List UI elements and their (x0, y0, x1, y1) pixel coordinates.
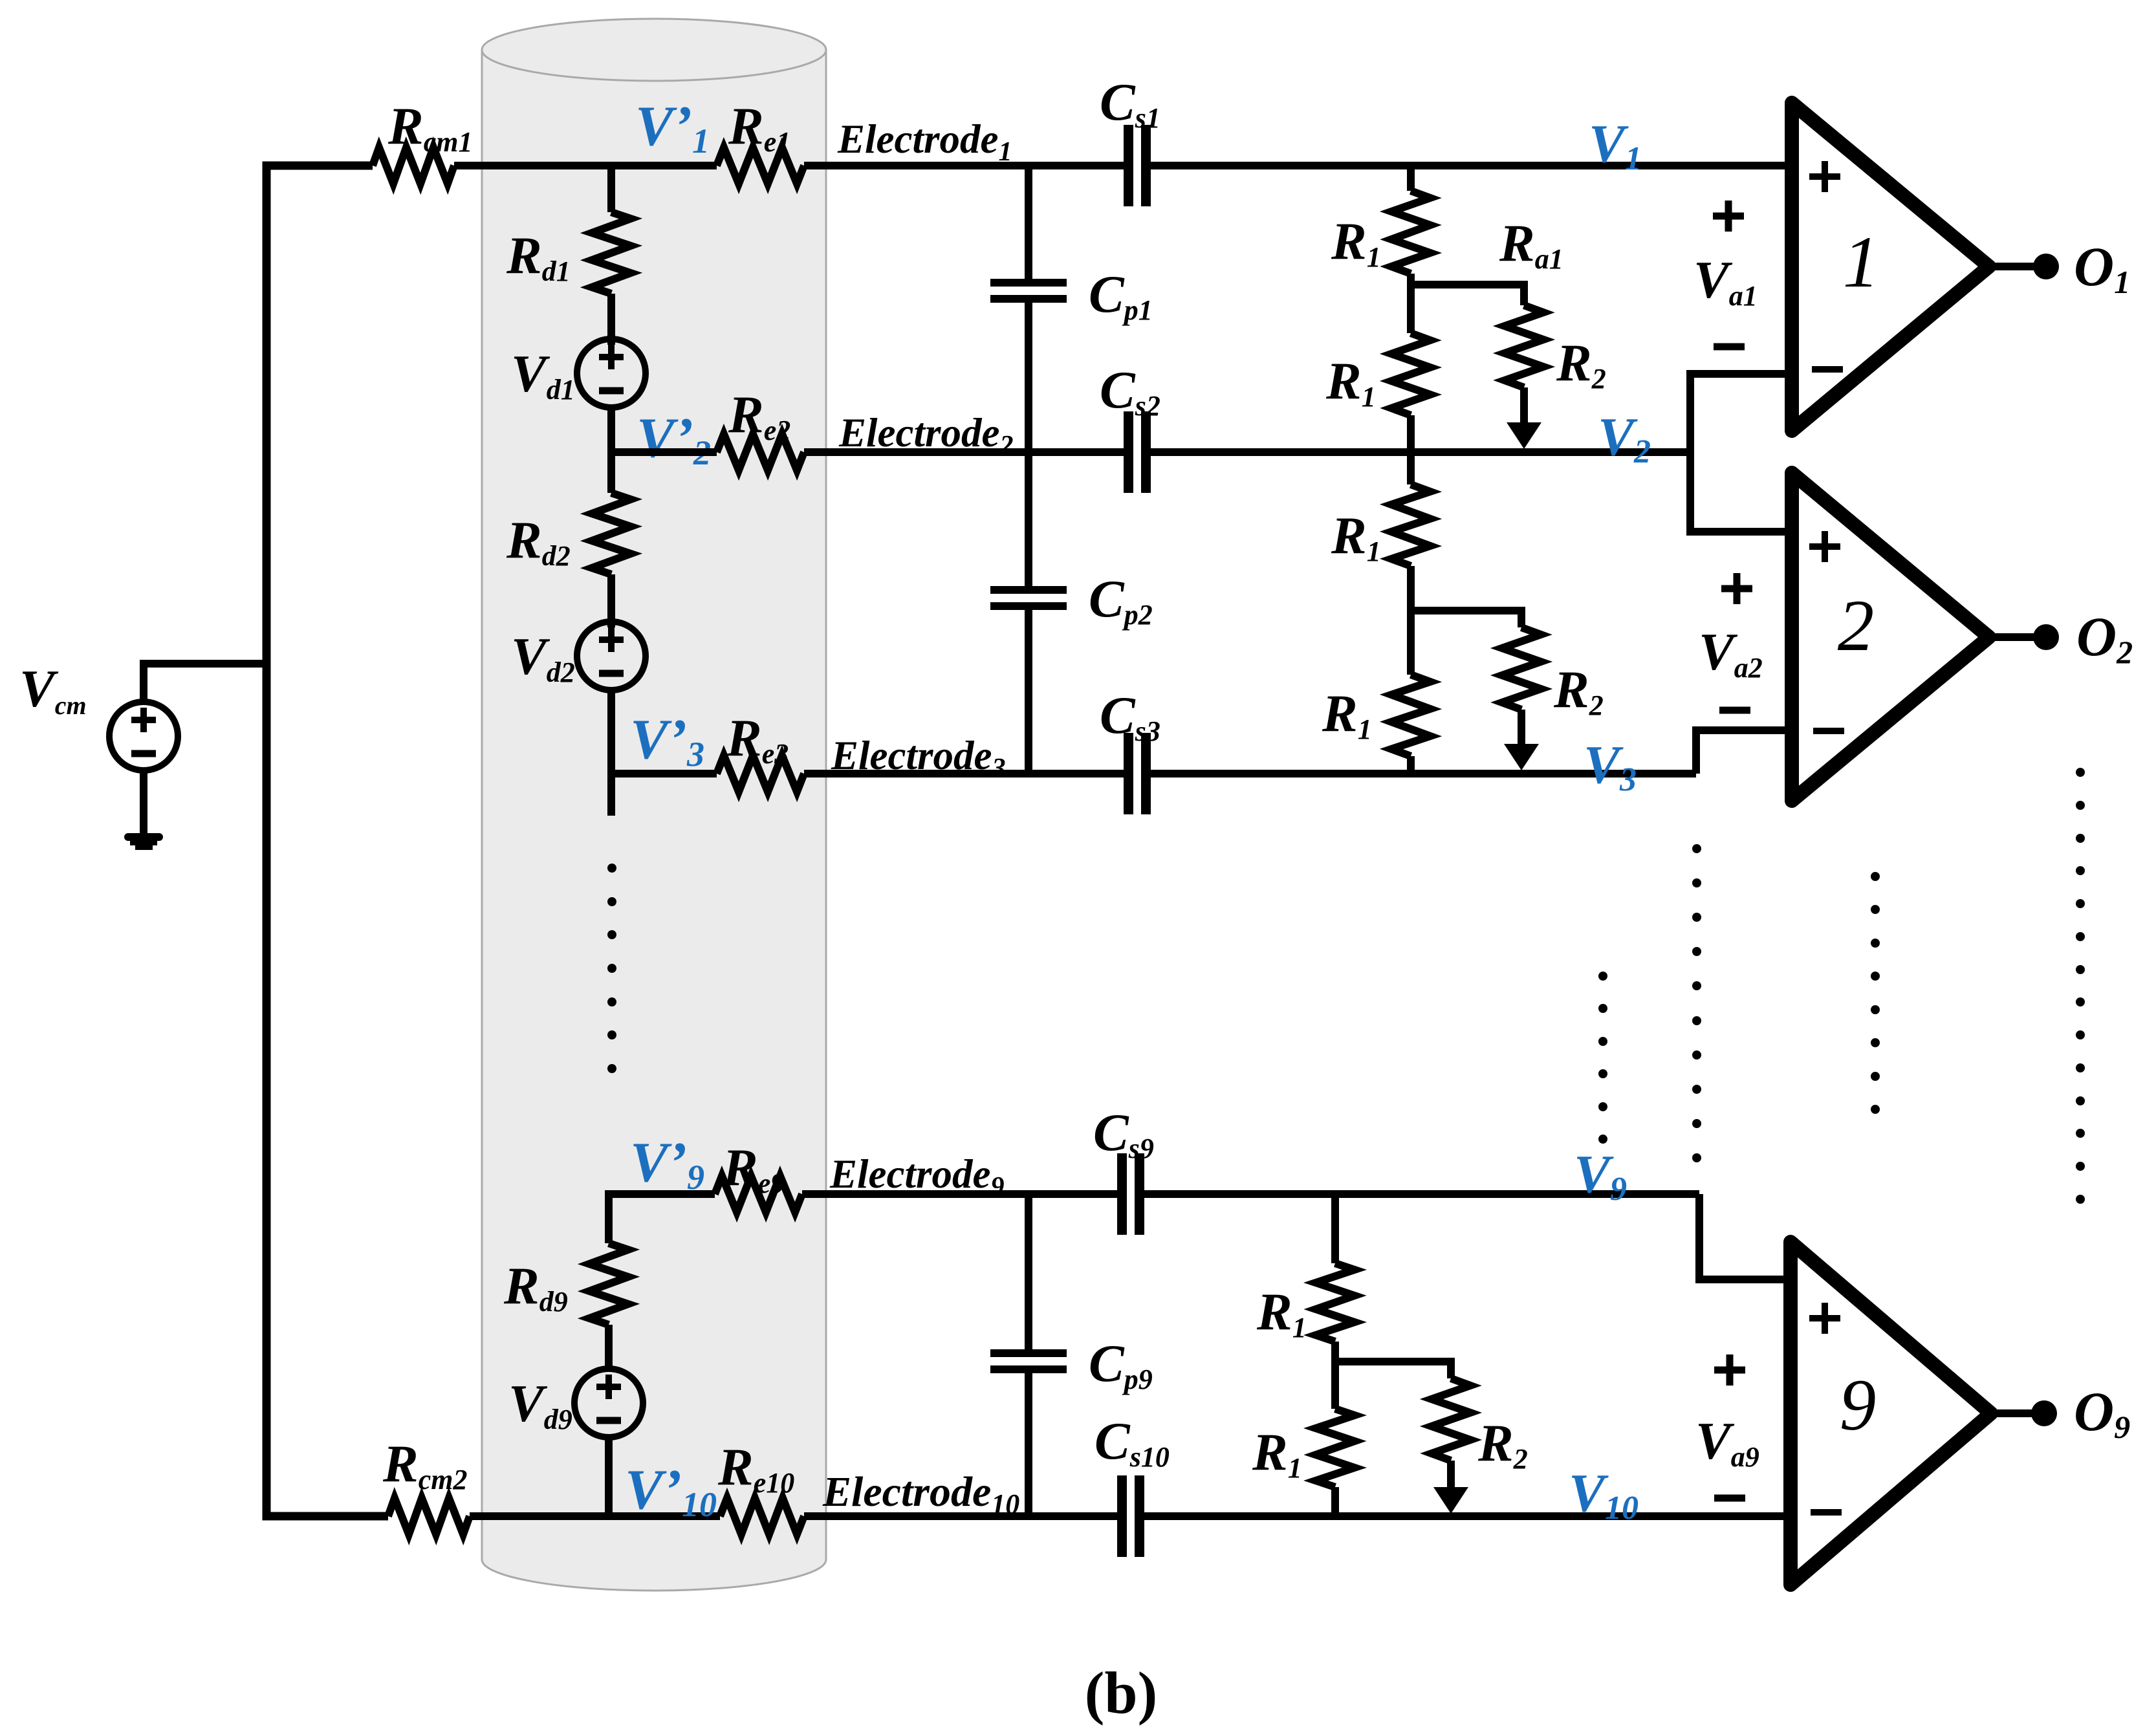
wire row1 to Cs1 (804, 162, 1124, 169)
label plus Va2 (1721, 573, 1752, 604)
wire row9 to Cs9 (802, 1190, 1117, 1198)
resistor Rd2 (592, 493, 631, 574)
svg-text:9: 9 (1840, 1365, 1877, 1446)
wire R1m bottom lead (1407, 756, 1415, 774)
capacitor Cs3 (1124, 733, 1151, 814)
op-amp U2 plus in (1809, 531, 1840, 562)
wire row9 to step (1144, 1190, 1699, 1198)
wire Ra2 jumper (1411, 611, 1521, 627)
wire Vd2 to V'3 (607, 690, 615, 816)
wire V'2 junction down (607, 452, 615, 493)
svg-text:Electrode2: Electrode2 (838, 410, 1013, 461)
wire row10 mid (470, 1512, 720, 1520)
wire R2b lead down (1447, 1461, 1455, 1488)
capacitor Cp9 (990, 1349, 1067, 1373)
resistor Rcm2 (388, 1498, 470, 1534)
resistor Re1 (717, 147, 804, 184)
svg-text:1: 1 (1843, 222, 1880, 303)
wire Rd2 to Vd2 (607, 574, 615, 627)
resistor Re2 (717, 434, 804, 470)
label minus Va2 (1719, 707, 1750, 714)
capacitor Cp2 (990, 586, 1067, 610)
label minus Va9 (1714, 1495, 1745, 1502)
svg-text:Electrode1: Electrode1 (837, 116, 1012, 167)
op-amp U1 minus in (1812, 366, 1843, 373)
resistor Re3 (717, 756, 804, 792)
wire row10 to opamp9 (1144, 1512, 1791, 1520)
wire row2 to Cs2 (804, 448, 1124, 456)
op-amp U1 plus in (1809, 161, 1840, 192)
ground arrow R2 mid (1504, 744, 1539, 770)
voltage source Vd1 (577, 339, 646, 408)
wire row9 left (609, 1194, 715, 1243)
node O2 dot (2033, 624, 2059, 650)
ground arrow R2 bottom (1433, 1487, 1468, 1514)
resistor Rcm1 (373, 147, 454, 184)
resistor R2 mid (1502, 627, 1541, 710)
capacitor Cp1 (990, 279, 1067, 303)
wire fork vertical (1690, 374, 1792, 532)
wire Cp9 upper lead (1025, 1194, 1032, 1349)
wire op1 output (1989, 263, 2034, 270)
label plus Va9 (1714, 1354, 1745, 1386)
ellipsis chain (607, 864, 616, 1073)
wire R1m top lead (1407, 452, 1415, 484)
wire R1 mid (1407, 274, 1415, 333)
wire row2 to fork (1151, 448, 1690, 456)
wire R1 top lead (1407, 166, 1415, 191)
wire row3 to Cs3 (804, 770, 1124, 778)
wire R1b top lead (1331, 1194, 1339, 1263)
body volume cylinder (482, 19, 826, 1591)
wire step op9 plus (1699, 1194, 1791, 1279)
wire R1 bottom lead (1407, 415, 1415, 452)
node O9 dot (2031, 1400, 2057, 1426)
ellipsis col out (2076, 768, 2085, 1204)
wire R1b mid (1331, 1342, 1339, 1409)
resistor R1 upper (1391, 191, 1430, 274)
wire R2 lead down (1520, 387, 1528, 424)
svg-text:Electrode10: Electrode10 (822, 1468, 1019, 1520)
capacitor Cs10 (1117, 1475, 1144, 1557)
op-amp U1 (1792, 103, 1989, 431)
wire row3 to step (1151, 770, 1696, 778)
voltage source Vcm (109, 702, 178, 770)
wire row10 to Cs10 (804, 1512, 1117, 1520)
wire step op2 minus (1696, 730, 1792, 774)
resistor R2 top (1505, 305, 1543, 387)
resistor Rd9 (589, 1243, 628, 1325)
wire Vcm top to bus (144, 664, 267, 702)
resistor R1 bottom-upper (1316, 1263, 1355, 1342)
wire Vd1 to V'2 (607, 408, 615, 452)
label minus Va1 (1714, 343, 1745, 351)
wire Rd1 to Vd1 (607, 294, 615, 345)
capacitor Cs9 (1117, 1153, 1144, 1235)
wire row1 mid (454, 162, 717, 169)
wire R1b bottom lead (1331, 1487, 1339, 1516)
svg-text:Electrode9: Electrode9 (829, 1151, 1004, 1202)
wire op9 output (1991, 1409, 2032, 1417)
op-amp U9 plus in (1809, 1303, 1840, 1334)
op-amp U2 (1792, 473, 1989, 801)
svg-text:(b): (b) (1085, 1660, 1157, 1726)
wire Cp1 lower lead (1025, 303, 1032, 586)
svg-text:Electrode3: Electrode3 (831, 733, 1005, 783)
wire Ra9 jumper (1335, 1362, 1451, 1378)
ground (124, 770, 163, 850)
wire Cp1 upper lead (1025, 166, 1032, 279)
wire Rd9 to Vd9 (605, 1325, 613, 1371)
resistor R1 mid-lower (1391, 675, 1430, 756)
wire Ra1 jumper (1411, 285, 1524, 305)
wire R1m mid (1407, 566, 1415, 675)
voltage source Vd2 (577, 622, 646, 690)
ground arrow R2 top (1507, 422, 1541, 449)
wire Cp2 lower lead (1025, 610, 1032, 774)
voltage source Vd9 (574, 1369, 643, 1437)
resistor R2 bottom (1432, 1378, 1470, 1461)
wire Vd9 to V'10 (605, 1437, 613, 1516)
resistor Rd1 (592, 212, 631, 294)
svg-text:2: 2 (1838, 585, 1875, 666)
ellipsis col amp (1871, 872, 1880, 1114)
resistor R1 lower (1391, 333, 1430, 415)
op-amp U9 minus in (1811, 1509, 1842, 1516)
ellipsis col V (1598, 972, 1607, 1144)
op-amp U2 minus in (1813, 728, 1844, 734)
op-amp U9 (1791, 1242, 1991, 1585)
wire row3 left (611, 770, 717, 778)
label plus Va1 (1713, 201, 1744, 232)
resistor Re10 (720, 1498, 804, 1534)
node O1 dot (2033, 254, 2059, 279)
wire op2 output (1989, 633, 2034, 641)
ellipsis col step (1692, 844, 1701, 1162)
resistor R1 mid-upper (1391, 484, 1430, 566)
capacitor Cs1 (1124, 125, 1151, 206)
resistor R1 bottom-lower (1316, 1409, 1355, 1487)
wire row1 to opamp1 (1151, 162, 1792, 169)
wire row2 left (611, 448, 717, 456)
wire Cp9 lower lead (1025, 1373, 1032, 1516)
wire R2m lead down (1518, 710, 1525, 744)
capacitor Cs2 (1124, 411, 1151, 493)
wire V'1 junction down (607, 166, 615, 212)
resistor Re9 (715, 1176, 802, 1212)
wire left common bus (267, 166, 388, 1516)
